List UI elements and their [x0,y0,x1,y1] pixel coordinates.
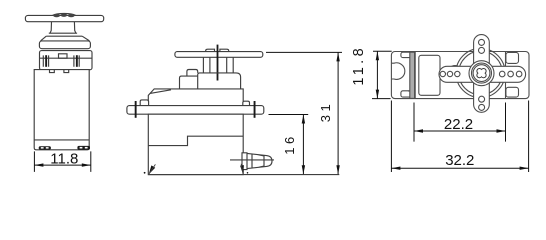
dimension 22.2 [414,103,506,142]
body step line [148,136,243,145]
shaft block [203,57,233,73]
left flange U-notch [392,63,405,80]
screw outer rings [472,63,492,83]
body top small tabs [50,70,69,73]
main body [34,70,89,150]
secondary gear bump [448,66,463,81]
flange lip right [243,101,250,105]
dimension 16 [269,115,309,175]
flange tabs [401,52,412,57]
svg-text:32.2: 32.2 [445,152,474,169]
flange inner line [40,57,93,59]
flange screw slot right (dark) [254,101,256,118]
foot right (dark clip) [77,146,90,150]
mounting flange plate [127,106,264,115]
dimension 31 [266,52,342,174]
screw boss right [74,55,79,66]
flange screw slot left (dark) [135,101,137,118]
gear cap trapezoid [41,36,90,41]
body boundary left + shaded wall [410,52,415,98]
flange plate inner line [408,90,414,92]
outer case outline [391,52,529,99]
horn hub bumps [206,49,229,51]
cable connector center line [230,159,274,161]
servo horn bar [25,15,103,21]
foot left (dark clip) [39,146,51,149]
cable connector plug [242,153,272,170]
gear housing left tab [187,70,198,77]
horn holes vertical [479,39,485,110]
gear housing [198,73,241,89]
svg-text:31: 31 [318,101,333,122]
horn horizontal arm [439,66,526,82]
horn bar [175,52,263,58]
corner arrow left (tilted) [149,165,156,174]
screw slot right (dark) [76,55,78,67]
top edge inner slant [150,90,171,94]
svg-text:11.8: 11.8 [50,151,78,168]
horn hub dome [53,14,76,16]
horn hub [469,61,494,86]
corner arrow right (tilted) [240,165,244,174]
svg-text:22.2: 22.2 [444,116,473,133]
dimension 32.2 [391,101,528,173]
gear head inner circle [459,51,503,95]
center tab [59,54,68,58]
body bottom divider [34,139,89,141]
gear head outer circle [456,48,505,97]
body top edge with chamfer [148,89,243,101]
screw center line (dark) [217,45,219,81]
horn vertical arm [474,35,490,113]
svg-text:11.8: 11.8 [351,45,367,86]
screw phillips cross (clover) [477,68,486,77]
flange lip left [140,100,148,106]
top panel [419,55,440,95]
body boundary right [505,52,507,99]
dimension 11.8 (right view) [372,51,392,98]
upper band [39,41,90,49]
flange band [40,51,93,70]
horn hub screws (3 dark ellipses) [53,14,74,18]
svg-text:16: 16 [282,133,297,154]
horn holes horizontal [440,71,522,77]
dimension 11.8 (left view) [34,151,90,172]
screw slot left (dark) [45,55,47,67]
main body [148,114,243,174]
gear housing left step [180,76,198,89]
screw boss left [43,55,48,66]
output shaft [49,22,77,34]
bottom baseline [148,174,339,176]
